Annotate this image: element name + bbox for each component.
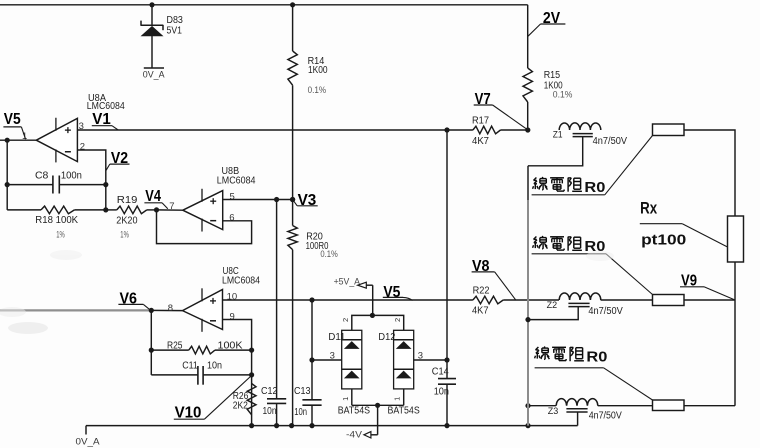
- svg-text:10n: 10n: [434, 386, 449, 397]
- svg-text:R0: R0: [584, 179, 605, 196]
- svg-text:R25: R25: [167, 341, 183, 352]
- node dot rail/C13: [309, 423, 314, 428]
- svg-text:0.1%: 0.1%: [320, 249, 338, 260]
- ground 0V_A bottom left: [76, 426, 101, 448]
- svg-text:Z2: Z2: [547, 300, 558, 310]
- wire R14 to V3: [292, 85, 294, 225]
- svg-text:BAT54S: BAT54S: [338, 406, 370, 417]
- capacitor C8: [7, 176, 106, 194]
- label R25 100K: [167, 341, 243, 352]
- capacitor Z3 4n7/50V: [566, 409, 587, 426]
- label 4n7/50V Z2: [588, 306, 623, 317]
- svg-text:V5: V5: [383, 284, 400, 301]
- capacitor C13: [302, 400, 321, 405]
- pin 1 label: [22, 131, 27, 142]
- svg-text:R22: R22: [473, 285, 490, 296]
- pin 6 label: [229, 212, 234, 223]
- node dot V3: [290, 197, 295, 202]
- wire C12 column: [276, 200, 278, 426]
- label Rx pt100: [640, 200, 728, 249]
- resistor R0 box row2: [653, 295, 685, 306]
- wire R20 to bottom rail: [292, 250, 294, 426]
- node dot left/C8: [5, 182, 10, 187]
- wire top 2V rail: [0, 4, 528, 6]
- node dot V5/C13 column: [309, 297, 314, 302]
- svg-text:8: 8: [168, 303, 173, 314]
- wire U8A output pin1: [0, 139, 36, 141]
- label Z3: [548, 406, 559, 416]
- capacitor C14: [438, 379, 456, 385]
- wire U8A -in pin2: [77, 150, 105, 210]
- svg-text:V5: V5: [4, 111, 21, 128]
- svg-text:D12: D12: [378, 332, 395, 343]
- resistor R18: [41, 206, 74, 214]
- resistor R15: [523, 68, 532, 102]
- node dot rail/R26: [249, 423, 254, 428]
- node dot Z2 cap junction: [525, 317, 530, 322]
- node dot V1/C14 column: [444, 127, 449, 132]
- pin 5 label: [230, 191, 235, 202]
- node dot pin5/R14R20 V3: [290, 197, 295, 202]
- svg-text:R18 100K: R18 100K: [35, 215, 78, 226]
- resistor R0 box row1: [653, 124, 685, 136]
- wire left column: [6, 140, 8, 210]
- label R26 2K2: [233, 391, 249, 412]
- node label V1: [92, 111, 118, 130]
- label 4n7/50V Z1: [593, 136, 628, 147]
- label R17 4K7: [472, 115, 489, 147]
- wire U8B feedback: [157, 210, 252, 244]
- pin 7 label: [169, 201, 174, 212]
- pin 2 label: [80, 141, 85, 152]
- svg-text:-4V: -4V: [346, 430, 363, 441]
- svg-text:4K7: 4K7: [472, 136, 489, 147]
- svg-text:V6: V6: [120, 291, 138, 308]
- svg-text:7: 7: [169, 201, 174, 212]
- svg-text:LMC6084: LMC6084: [222, 275, 260, 286]
- node label V3: [293, 192, 318, 209]
- pin 1 label D12: [393, 397, 402, 401]
- svg-text:R0: R0: [586, 349, 607, 366]
- wire R14 top lead: [292, 5, 294, 51]
- label Z2: [547, 300, 558, 310]
- capacitor Z1 4n7/50V: [528, 134, 593, 166]
- node dot C11 right / V10: [249, 372, 254, 377]
- node label V10: [174, 376, 251, 421]
- wire right column from row1: [684, 130, 735, 216]
- node dot top rail / R14: [290, 2, 295, 7]
- wire 2V drop to R15: [527, 5, 529, 68]
- wire C14 column: [446, 130, 448, 426]
- wire U8B +in pin5: [223, 199, 293, 201]
- svg-text:0.1%: 0.1%: [308, 85, 327, 96]
- wire V6 dot to U8C out: [151, 309, 182, 311]
- wire R18 row: [7, 209, 106, 211]
- pin 2 label D12: [393, 318, 402, 322]
- wire D11 D12 pin1 common: [352, 389, 404, 405]
- node label V5 (rail): [383, 284, 413, 301]
- svg-text:C11: C11: [182, 361, 198, 372]
- pin 2 label D11: [341, 318, 350, 322]
- node dot rail/R20: [289, 423, 294, 428]
- wire V1 rail right of R17: [501, 129, 528, 131]
- svg-text:C12: C12: [261, 386, 278, 397]
- svg-text:pt100: pt100: [641, 231, 686, 248]
- label 線電阻R0 row1: [532, 136, 653, 197]
- pin 3 label: [79, 121, 84, 132]
- svg-text:C8: C8: [35, 171, 49, 182]
- label D83 5V1: [167, 15, 184, 37]
- svg-text:4n7/50V: 4n7/50V: [588, 306, 623, 317]
- power -4V arrow: [346, 405, 378, 440]
- inductor Z1: [559, 123, 601, 130]
- svg-text:5: 5: [230, 191, 235, 202]
- wire V6 gray lead: [0, 309, 151, 311]
- wire D11 pin3: [312, 359, 342, 361]
- resistor R14: [288, 51, 297, 85]
- node label V8: [472, 258, 516, 301]
- wire pin2 to D11: [352, 315, 373, 330]
- pin 1 label D11: [341, 397, 350, 401]
- resistor R17: [473, 126, 501, 134]
- svg-text:6: 6: [229, 212, 234, 223]
- node dot V2/C8: [103, 182, 108, 187]
- wire U8C left column: [150, 310, 152, 375]
- svg-text:0V_A: 0V_A: [76, 437, 101, 448]
- pin 9 label: [230, 311, 235, 322]
- node label V9: [680, 272, 735, 300]
- svg-text:3: 3: [330, 350, 335, 361]
- wire V8 rail right of R22: [503, 299, 559, 301]
- pin 3 label D11: [330, 350, 335, 361]
- svg-text:0V_A: 0V_A: [143, 69, 165, 80]
- node dot D12 pin3 / C14: [444, 357, 449, 362]
- svg-text:2K2: 2K2: [233, 401, 248, 412]
- svg-text:1%: 1%: [120, 230, 129, 240]
- wire V8 rail to R0 box: [601, 299, 653, 301]
- diode D12 BAT54S: [394, 330, 414, 389]
- diode D11 BAT54S: [342, 330, 362, 389]
- capacitor C11: [151, 366, 251, 385]
- svg-text:2: 2: [393, 318, 402, 322]
- wire Z3 row to R0 box: [598, 405, 653, 407]
- svg-text:BAT54S: BAT54S: [388, 406, 420, 417]
- node label V7: [474, 91, 528, 130]
- label R15 1K00 0.1%: [544, 70, 573, 100]
- svg-text:R17: R17: [472, 115, 489, 126]
- node dot V4 / U8B out: [154, 207, 159, 212]
- wire C13 column: [311, 300, 313, 426]
- label C14 10n: [432, 366, 449, 397]
- svg-text:R19: R19: [117, 195, 138, 206]
- label 線電阻R0 row2: [532, 236, 653, 295]
- pin 8 label: [168, 303, 173, 314]
- resistor R19: [117, 206, 147, 214]
- label C13 10n: [294, 386, 311, 418]
- svg-text:10: 10: [227, 292, 238, 303]
- op-amp U8C: [183, 288, 223, 332]
- wire right column Rx to Z3 row: [734, 262, 736, 406]
- wire Z3 row: [528, 405, 556, 407]
- svg-text:100K: 100K: [218, 341, 243, 352]
- label D12: [378, 332, 395, 343]
- svg-text:5V1: 5V1: [167, 26, 183, 37]
- svg-text:100n: 100n: [61, 171, 82, 182]
- svg-text:4n7/50V: 4n7/50V: [589, 411, 623, 422]
- svg-text:D83: D83: [167, 15, 184, 26]
- zener diode D83: [141, 5, 163, 68]
- wire R15 to V7: [527, 102, 529, 130]
- label C8 100n: [35, 171, 82, 182]
- wire U8C -in pin9: [223, 320, 252, 426]
- label U8B LMC6084: [217, 166, 256, 186]
- node dot R25 right: [249, 348, 254, 353]
- label C12 10n: [261, 386, 278, 417]
- svg-text:1%: 1%: [56, 230, 64, 240]
- svg-text:4K7: 4K7: [472, 305, 489, 316]
- wire V5 rail: [223, 299, 473, 301]
- svg-text:Z3: Z3: [548, 406, 559, 416]
- inductor Z3: [556, 399, 598, 406]
- power +5V_A arrow: [334, 276, 373, 315]
- svg-text:1K00: 1K00: [308, 65, 328, 76]
- capacitor C12: [267, 399, 286, 404]
- wire U8B out lead: [157, 209, 183, 211]
- capacitor Z2 4n7/50V: [528, 303, 590, 319]
- label BAT54S D12: [388, 406, 420, 417]
- wire bottom 0V_A rail: [86, 425, 578, 427]
- label R20 100R0 0.1%: [306, 231, 339, 260]
- svg-text:C13: C13: [294, 386, 311, 397]
- ground 0V_A zener: [143, 68, 165, 80]
- background smudges: [0, 250, 614, 334]
- node dot rail/C12: [274, 423, 279, 428]
- node dot V2/R18/R19: [103, 207, 108, 212]
- node V7 dot: [525, 127, 530, 132]
- node dot U8A out/left column: [5, 138, 10, 143]
- svg-text:10n: 10n: [207, 361, 222, 372]
- label 線電阻R0 row3: [535, 347, 653, 401]
- op-amp U8A: [36, 118, 77, 163]
- svg-text:1: 1: [393, 397, 402, 401]
- node dot pin1 common: [375, 403, 380, 408]
- node dot rail/C14: [444, 423, 449, 428]
- node label V6: [118, 291, 150, 310]
- resistor R26: [247, 383, 256, 414]
- label Z1: [553, 130, 563, 140]
- label R14 1K00 0.1%: [308, 56, 328, 96]
- wire D12 pin3: [414, 359, 447, 361]
- svg-text:2: 2: [80, 141, 85, 152]
- resistor R0 box row3: [653, 400, 685, 411]
- wire Z3 box to right column: [684, 405, 735, 407]
- pin 3 label D12: [418, 350, 423, 361]
- wire V1 rail: [77, 129, 473, 131]
- op-amp U8B: [183, 189, 223, 232]
- label U8A LMC6084: [87, 93, 125, 112]
- node dot R25 left: [149, 348, 154, 353]
- svg-text:2K20: 2K20: [116, 215, 138, 226]
- svg-text:10n: 10n: [263, 406, 277, 417]
- node label V4: [144, 188, 167, 209]
- wire V8 box to V9: [684, 299, 735, 301]
- node dot Z3 row / cap column: [525, 403, 530, 408]
- node dot pin5/C12 column: [274, 197, 279, 202]
- label U8C LMC6084: [222, 266, 260, 286]
- svg-text:LMC6084: LMC6084: [217, 175, 256, 186]
- svg-text:2: 2: [341, 318, 350, 322]
- node dot rail/cap ground column: [525, 423, 530, 428]
- svg-text:9: 9: [230, 311, 235, 322]
- node dot D11 D12 pin2 common: [370, 313, 375, 318]
- net label 2V: [528, 10, 566, 36]
- node dot V6: [149, 308, 154, 313]
- node dot top rail / D83: [149, 2, 154, 7]
- svg-text:C14: C14: [432, 366, 449, 377]
- wire R19 leads: [106, 209, 157, 211]
- resistor R22: [473, 296, 503, 304]
- resistor R20: [288, 226, 297, 250]
- node label V5 (U8A out): [3, 111, 25, 139]
- wire R25 leads: [151, 349, 251, 351]
- svg-text:D11: D11: [328, 332, 345, 343]
- label D11: [328, 332, 345, 343]
- wire cap ground column x528: [527, 166, 529, 426]
- svg-text:1: 1: [341, 397, 350, 401]
- resistor R25: [189, 346, 215, 354]
- wire pin2 to D12: [372, 315, 403, 330]
- svg-text:0.1%: 0.1%: [553, 89, 573, 100]
- label C11 10n: [182, 361, 222, 372]
- label R19 2K20 1%: [116, 195, 138, 240]
- svg-text:3: 3: [418, 350, 423, 361]
- label 4n7/50V Z3: [589, 411, 623, 422]
- node label V2: [106, 150, 129, 171]
- node dot C13 / D11 pin3: [309, 357, 314, 362]
- svg-text:+5V_A: +5V_A: [334, 276, 360, 286]
- svg-text:4n7/50V: 4n7/50V: [593, 136, 628, 147]
- resistor Rx pt100 box: [728, 216, 744, 262]
- label BAT54S D11: [338, 406, 370, 417]
- pin 10 label: [227, 292, 238, 303]
- svg-text:10n: 10n: [294, 407, 307, 418]
- label R22 4K7: [472, 285, 490, 316]
- svg-text:Z1: Z1: [553, 130, 563, 140]
- inductor Z2: [559, 293, 601, 300]
- svg-text:Rx: Rx: [640, 200, 657, 218]
- svg-text:3: 3: [79, 121, 84, 132]
- label R18 100K 1%: [35, 215, 78, 240]
